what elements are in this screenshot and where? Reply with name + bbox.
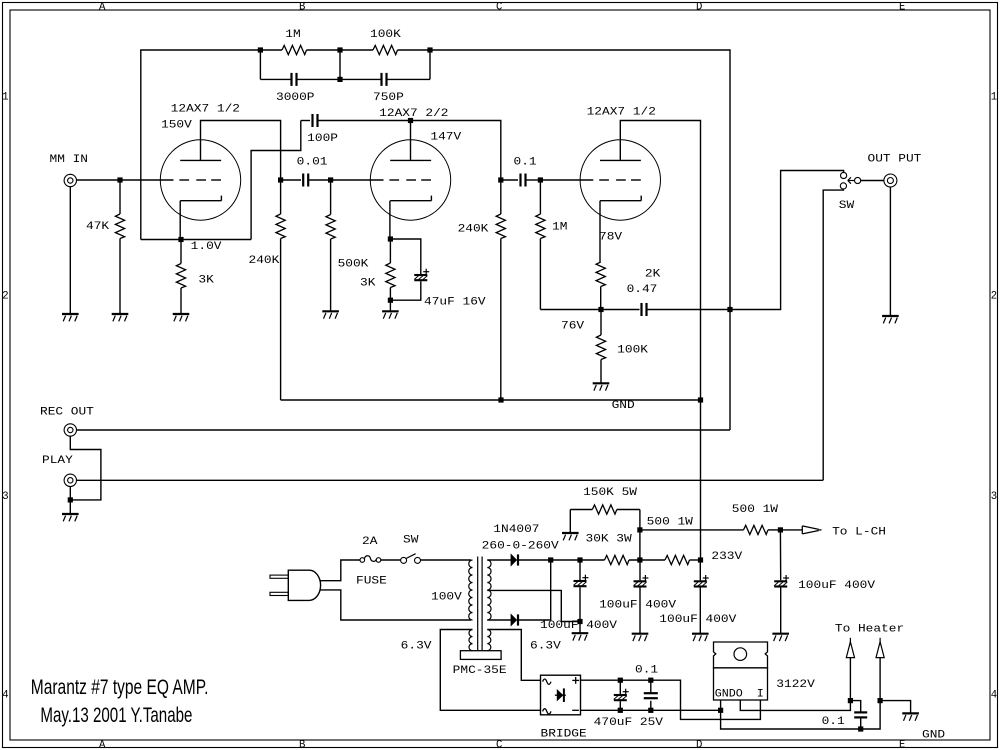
wire V3 plate to B+ column: [620, 121, 700, 561]
transformer T1 core bottom yoke: [460, 651, 501, 660]
node regulator GND pin junction: [718, 708, 723, 713]
ground for V2 cathode: [382, 311, 399, 318]
svg-text:GND: GND: [922, 730, 945, 742]
svg-text:MM IN: MM IN: [50, 154, 89, 166]
ground for 47K: [112, 314, 129, 321]
regulator U1 TO-220 tab: [714, 642, 768, 700]
label 6.3V right: [530, 640, 562, 652]
label PMC-35E: [453, 665, 507, 677]
svg-text:GNDO I: GNDO I: [715, 689, 764, 701]
svg-text:78V: 78V: [599, 232, 623, 244]
label 30K 3W: [586, 533, 633, 545]
wire MM IN to grid of first triode: [77, 179, 174, 181]
label SW output: [839, 200, 855, 212]
wire 100P branch from cathode row to V2 plate rail: [251, 121, 301, 240]
label 0.1 coupling: [514, 157, 537, 169]
wire first filter cap to ground: [579, 622, 581, 633]
triode V2 12AX7 2/2 envelope: [370, 140, 450, 220]
svg-text:1M: 1M: [552, 222, 567, 234]
svg-text:47uF 16V: 47uF 16V: [424, 297, 486, 309]
svg-text:0.47: 0.47: [627, 284, 658, 296]
wire left vertical of feedback cap row: [259, 50, 261, 79]
svg-text:Marantz #7 type EQ AMP.: Marantz #7 type EQ AMP.: [31, 676, 209, 699]
node V2 cathode resistor bottom junction: [388, 298, 393, 303]
label 1N4007: [493, 524, 539, 536]
svg-text:May.13 2001 Y.Tanabe: May.13 2001 Y.Tanabe: [40, 704, 192, 727]
label 12AX7 1/2 third triode: [587, 106, 656, 118]
ground for heater supply: [902, 713, 919, 720]
capacitor C-750P: [340, 73, 430, 86]
node V1 plate junction: [278, 177, 283, 182]
wire V3 cathode lead: [599, 201, 601, 262]
resistor R-30K 3W dropper: [605, 555, 630, 564]
wire plug top lead to fuse: [320, 560, 360, 581]
node L-CH output junction: [778, 527, 783, 532]
title date and author: [40, 704, 192, 727]
svg-text:1: 1: [991, 92, 997, 104]
wire 150K left end to ground: [569, 510, 571, 533]
wire switch lower contact to PLAY line: [823, 189, 843, 480]
svg-text:0.01: 0.01: [297, 157, 328, 169]
wire MM IN shield to ground: [69, 187, 71, 314]
svg-text:To L-CH: To L-CH: [832, 527, 886, 539]
wire V1 cathode lead: [179, 201, 181, 240]
node first filter junction: [577, 557, 582, 562]
node B+ rail junction at B+ column: [698, 397, 703, 402]
wire plug bottom lead to transformer: [320, 590, 471, 620]
resistor R-3K V2 cathode: [386, 239, 395, 300]
label 500 1W dropper: [647, 516, 694, 528]
node 0.1 bridge top junction: [648, 678, 653, 683]
label 100uF 400V first: [540, 620, 618, 632]
svg-text:2A: 2A: [362, 536, 378, 548]
transformer T1 core: [478, 557, 482, 651]
node 0.1 cap left junction: [498, 177, 503, 182]
label BRIDGE: [541, 728, 587, 740]
svg-text:1N4007: 1N4007: [493, 524, 539, 536]
svg-text:D: D: [696, 1, 702, 13]
svg-text:150V: 150V: [161, 120, 193, 132]
svg-text:3K: 3K: [198, 275, 214, 287]
ground for first filter cap: [572, 633, 589, 640]
capacitor C-100uF-3 third filter electrolytic: [694, 560, 709, 633]
svg-text:12AX7 1/2: 12AX7 1/2: [171, 104, 240, 116]
label GND heater: [922, 730, 945, 742]
label 0.1 bridge: [635, 665, 658, 677]
fuse F1 2A: [360, 556, 381, 563]
connector AC plug: [270, 570, 321, 600]
wire PLAY to switch: [77, 479, 824, 481]
diode D2 1N4007 lower: [511, 614, 518, 625]
node 0.47 to output column junction: [727, 307, 732, 312]
svg-text:2: 2: [2, 291, 8, 303]
svg-text:C: C: [496, 740, 502, 750]
wire bridge minus rail: [581, 709, 721, 711]
transformer T1 heater winding right 6.3V: [487, 630, 491, 651]
regulator U1 pin labels GND O I: [715, 689, 764, 701]
connector MM IN jack: [64, 174, 76, 186]
capacitor C-100uF-2 second filter electrolytic: [634, 560, 649, 633]
connector PLAY jack: [64, 474, 76, 486]
svg-text:47K: 47K: [86, 221, 110, 233]
node junction on cap rail: [337, 77, 342, 82]
resistor R-500K V2 grid leak: [326, 180, 335, 311]
svg-text:A: A: [99, 1, 106, 13]
svg-text:500 1W: 500 1W: [647, 516, 694, 528]
node junction at right end of 100K: [427, 47, 432, 52]
svg-text:100uF 400V: 100uF 400V: [798, 580, 876, 592]
node 0.1 bridge bottom junction: [648, 708, 653, 713]
svg-text:750P: 750P: [373, 92, 404, 104]
wire right vertical of feedback network: [429, 50, 431, 79]
wire right heater winding to bridge: [487, 630, 540, 681]
wire switch common to output jack: [861, 180, 884, 182]
label PLAY: [42, 455, 74, 467]
wire B+ distribution rail 233V: [281, 399, 701, 401]
label 1.0V cathode voltage: [191, 241, 223, 253]
switch SW output common contact with arrow: [848, 177, 861, 183]
label 1M: [285, 29, 300, 41]
label 0.1 heater: [822, 716, 845, 728]
wire fuse to power switch: [381, 559, 401, 561]
capacitor C-100uF-1 first filter electrolytic: [574, 560, 589, 622]
wire diode D2 up to junction: [518, 560, 551, 620]
label 100V: [431, 591, 463, 603]
node heater return junction: [878, 698, 883, 703]
triode V3 grid dashed line: [540, 179, 640, 181]
title Marantz #7 type EQ AMP.: [31, 676, 209, 699]
svg-text:100V: 100V: [431, 591, 463, 603]
label 470uF 25V: [594, 717, 664, 729]
svg-text:233V: 233V: [711, 551, 743, 563]
label 0.01: [297, 157, 328, 169]
resistor R-240K V2 plate load: [496, 180, 505, 400]
svg-text:B: B: [299, 1, 305, 13]
svg-text:To Heater: To Heater: [835, 623, 904, 635]
wire REC OUT shield loop: [70, 436, 101, 500]
label 3000P: [276, 92, 315, 104]
triode V1 grid dashed line: [179, 179, 221, 181]
label 6.3V left: [401, 641, 433, 653]
wire 500 dropper to 233V node: [690, 559, 701, 561]
node junction between 1M and 100K: [337, 47, 342, 52]
ground for V1 cathode resistor: [173, 314, 190, 321]
transformer T1 heater winding left 6.3V: [469, 630, 473, 651]
wire and arrow To L-CH: [780, 526, 821, 534]
label 2A: [362, 536, 378, 548]
node heater feed junction: [848, 698, 853, 703]
wire 0.47 row to switch upper contact: [730, 171, 844, 310]
capacitor C-470uF 25V electrolytic: [614, 680, 629, 710]
svg-text:SW: SW: [839, 200, 855, 212]
svg-text:GND: GND: [612, 400, 635, 412]
wire 500 1W to L-CH node: [768, 529, 780, 531]
svg-text:BRIDGE: BRIDGE: [541, 728, 587, 740]
wire left heater winding to bridge: [440, 630, 540, 711]
node output divider junction: [598, 307, 603, 312]
svg-text:470uF 25V: 470uF 25V: [594, 717, 664, 729]
svg-text:SW: SW: [403, 535, 419, 547]
svg-text:100uF 400V: 100uF 400V: [540, 620, 618, 632]
wire 30K to 500 dropper: [629, 559, 665, 561]
svg-text:0.1: 0.1: [635, 665, 658, 677]
label FUSE: [356, 576, 387, 588]
label 47uF 16V: [424, 297, 486, 309]
switch SW output upper contact: [841, 172, 847, 178]
svg-text:6.3V: 6.3V: [530, 640, 562, 652]
svg-text:6.3V: 6.3V: [401, 641, 433, 653]
node second filter junction: [637, 557, 642, 562]
label 100uF 400V third: [659, 614, 737, 626]
svg-text:500 1W: 500 1W: [732, 504, 779, 516]
ground for output jack: [882, 316, 899, 323]
wire secondary top to diode: [487, 559, 511, 561]
svg-text:PMC-35E: PMC-35E: [453, 665, 507, 677]
ground for second filter cap: [632, 634, 649, 641]
svg-text:OUT PUT: OUT PUT: [868, 154, 922, 166]
svg-text:100K: 100K: [617, 344, 649, 356]
node V2 plate junction: [408, 118, 413, 123]
svg-text:1: 1: [2, 92, 8, 104]
label 100K divider: [617, 344, 649, 356]
arrow To Heater right: [876, 638, 884, 701]
label 3K V1: [198, 275, 214, 287]
connector REC OUT jack: [64, 424, 76, 436]
wire output jack shield to ground: [889, 187, 891, 316]
node PLAY shield junction: [68, 497, 73, 502]
resistor R-150K 5W bleeder: [570, 505, 640, 514]
svg-text:REC OUT: REC OUT: [40, 407, 94, 419]
diode D1 1N4007 upper: [511, 554, 518, 565]
svg-text:240K: 240K: [249, 255, 281, 267]
regulator GND pin wire to ground rail: [721, 700, 881, 729]
label 78V cathode voltage: [599, 232, 623, 244]
label 240K V2: [458, 224, 490, 236]
svg-text:3K: 3K: [360, 278, 376, 290]
node junction at left end of 1M: [258, 47, 263, 52]
ground for 150K bleeder: [562, 533, 579, 540]
svg-text:2: 2: [991, 291, 997, 303]
svg-text:4: 4: [991, 690, 997, 702]
label 12AX7 2/2: [379, 108, 448, 120]
wire V2 cathode lead: [389, 201, 391, 239]
wire middle vertical of feedback network: [339, 50, 341, 79]
capacitor C-0.1 coupling: [501, 174, 541, 187]
label GND: [612, 400, 635, 412]
resistor R-1M V3 grid leak: [536, 180, 601, 310]
node 470uF bottom junction: [618, 708, 623, 713]
wire 150K right end down to rail: [639, 510, 641, 561]
wire V2 plate lead: [410, 121, 412, 161]
svg-text:30K 3W: 30K 3W: [586, 533, 633, 545]
node V2 cathode junction: [388, 236, 393, 241]
label 3K V2: [360, 278, 376, 290]
transformer T1 primary winding 100V: [469, 560, 473, 620]
svg-text:3: 3: [991, 491, 997, 503]
svg-text:FUSE: FUSE: [356, 576, 387, 588]
ground for L-CH filter cap: [772, 634, 789, 641]
label To L-CH: [832, 527, 886, 539]
label OUT PUT: [868, 154, 922, 166]
svg-text:E: E: [899, 1, 905, 13]
svg-text:2K: 2K: [645, 269, 661, 281]
svg-text:12AX7 2/2: 12AX7 2/2: [379, 108, 448, 120]
capacitor C-100P: [301, 114, 411, 127]
resistor R-1M feedback: [260, 45, 340, 54]
ground for output divider: [593, 383, 610, 390]
switch SW power: [401, 554, 421, 564]
connector OUT PUT jack: [884, 174, 897, 187]
svg-text:4: 4: [2, 690, 8, 702]
label 147V plate voltage V2: [430, 131, 462, 143]
capacitor C-100uF-4 L-CH filter electrolytic: [774, 530, 789, 633]
svg-text:A: A: [99, 740, 106, 750]
arrow To Heater left: [846, 638, 854, 701]
label 47K: [86, 221, 110, 233]
label To Heater: [835, 623, 904, 635]
resistor R-500 1W dropper: [665, 555, 690, 564]
label 150K 5W: [583, 487, 638, 499]
svg-text:260-0-260V: 260-0-260V: [482, 541, 560, 553]
switch SW output lower contact: [840, 183, 846, 189]
svg-text:1.0V: 1.0V: [191, 241, 223, 253]
wire V2 plate rail to 0.1 node: [411, 121, 501, 181]
transformer T1 HV secondary winding: [487, 560, 491, 620]
label MM IN: [50, 154, 89, 166]
wire V1 plate to coupling node: [201, 121, 281, 181]
ground for PLAY jack: [62, 514, 79, 521]
resistor R-240K V1 plate load: [276, 180, 285, 400]
resistor R-500 1W L-CH feed: [744, 525, 769, 534]
label 750P: [373, 92, 404, 104]
node 233V junction: [698, 557, 703, 562]
wire PLAY shield to ground: [69, 487, 71, 514]
svg-text:100uF 400V: 100uF 400V: [599, 599, 677, 611]
svg-text:B: B: [299, 740, 305, 750]
svg-text:147V: 147V: [430, 131, 462, 143]
node heater bypass bottom junction: [858, 726, 863, 731]
svg-text:100P: 100P: [307, 133, 338, 145]
resistor R-47K input load: [115, 180, 124, 314]
resistor R-100K output divider: [596, 310, 605, 383]
frame zone letters bottom: [99, 740, 905, 750]
node center tap ground junction: [577, 619, 582, 624]
triode V1 12AX7 1/2 envelope: [160, 140, 240, 220]
svg-text:100K: 100K: [370, 29, 402, 41]
node rectifier output junction: [548, 557, 553, 562]
node L-CH feed junction: [637, 527, 642, 532]
ground for 500K: [322, 311, 339, 318]
capacitor C-47uF bypass electrolytic: [390, 239, 429, 300]
svg-text:100uF 400V: 100uF 400V: [659, 614, 737, 626]
svg-text:500K: 500K: [338, 258, 370, 270]
svg-text:150K 5W: 150K 5W: [583, 487, 638, 499]
triode V2 grid dashed line: [331, 179, 431, 181]
label SW power: [403, 535, 419, 547]
svg-text:PLAY: PLAY: [42, 455, 74, 467]
regulator O pin wire to heater feed: [740, 700, 850, 710]
node V2 grid junction: [328, 177, 333, 182]
triode V3 12AX7 1/2 envelope: [580, 140, 660, 220]
label REC OUT: [40, 407, 94, 419]
wire rectifier to first filter: [551, 559, 605, 561]
svg-text:C: C: [496, 1, 502, 13]
wire REC OUT to output column: [77, 429, 731, 431]
label 260-0-260V: [482, 541, 560, 553]
capacitor C-0.47 output coupling: [601, 303, 730, 316]
wire diode D1 to B+ filter: [518, 559, 551, 561]
node V3 grid junction: [538, 177, 543, 182]
frame zone letters top: [99, 1, 905, 13]
label 100uF 400V second: [599, 599, 677, 611]
frame zone numbers right: [991, 92, 997, 702]
svg-text:240K: 240K: [458, 224, 490, 236]
node V1 cathode junction: [178, 237, 183, 242]
label 2K: [645, 269, 661, 281]
resistor R-3K V1 cathode: [176, 240, 185, 314]
label 100P: [307, 133, 338, 145]
node B+ rail junction V2 load: [498, 397, 503, 402]
wire heater return to ground: [880, 701, 911, 713]
ground for MM IN: [62, 314, 79, 321]
label 76V: [561, 321, 585, 333]
svg-text:3000P: 3000P: [276, 92, 315, 104]
capacitor C-0.1 bridge filter: [644, 680, 658, 710]
ground for third filter cap: [692, 634, 709, 641]
node 470uF top junction: [618, 678, 623, 683]
capacitor C-0.1 heater bypass: [850, 701, 867, 729]
svg-text:0.1: 0.1: [514, 157, 537, 169]
resistor R-2K V3 cathode: [596, 262, 605, 310]
label 233V: [711, 551, 743, 563]
wire V2 cathode ground lead: [389, 300, 391, 311]
svg-text:3122V: 3122V: [776, 679, 815, 691]
label 12AX7 1/2 first triode: [171, 104, 240, 116]
svg-text:12AX7 1/2: 12AX7 1/2: [587, 106, 656, 118]
wire L-CH row to 500 1W: [640, 529, 744, 531]
wire HV center tap to ground node: [487, 590, 580, 621]
capacitor C-3000P: [260, 73, 340, 86]
svg-text:D: D: [696, 740, 702, 750]
label 500 1W L-CH: [732, 504, 779, 516]
wire power switch to transformer primary: [421, 559, 472, 561]
svg-text:1M: 1M: [285, 29, 300, 41]
node input junction: [117, 177, 122, 182]
label 3122V: [776, 679, 815, 691]
label 100uF 400V fourth: [798, 580, 876, 592]
wire top rail to output switch column: [430, 50, 730, 430]
label 0.47: [627, 284, 658, 296]
wire feedback from cathode node up and right to 1M: [141, 50, 261, 240]
svg-text:3: 3: [2, 491, 8, 503]
label 100K: [370, 29, 402, 41]
rectifier BRIDGE: [541, 675, 581, 715]
svg-text:E: E: [899, 740, 905, 750]
wire secondary bottom to diode: [487, 619, 511, 621]
label 240K V1: [249, 255, 281, 267]
capacitor C-0.01 coupling: [281, 174, 331, 187]
resistor R-100K feedback: [340, 45, 430, 54]
frame zone numbers left: [2, 92, 8, 702]
label 500K: [338, 258, 370, 270]
wire cathode row to feedback and 100P branch: [141, 239, 251, 241]
svg-text:76V: 76V: [561, 321, 585, 333]
svg-text:0.1: 0.1: [822, 716, 845, 728]
label 1M grid leak: [552, 222, 567, 234]
wire bridge plus output to regulator input: [581, 680, 761, 719]
label 150V plate voltage V1: [161, 120, 193, 132]
